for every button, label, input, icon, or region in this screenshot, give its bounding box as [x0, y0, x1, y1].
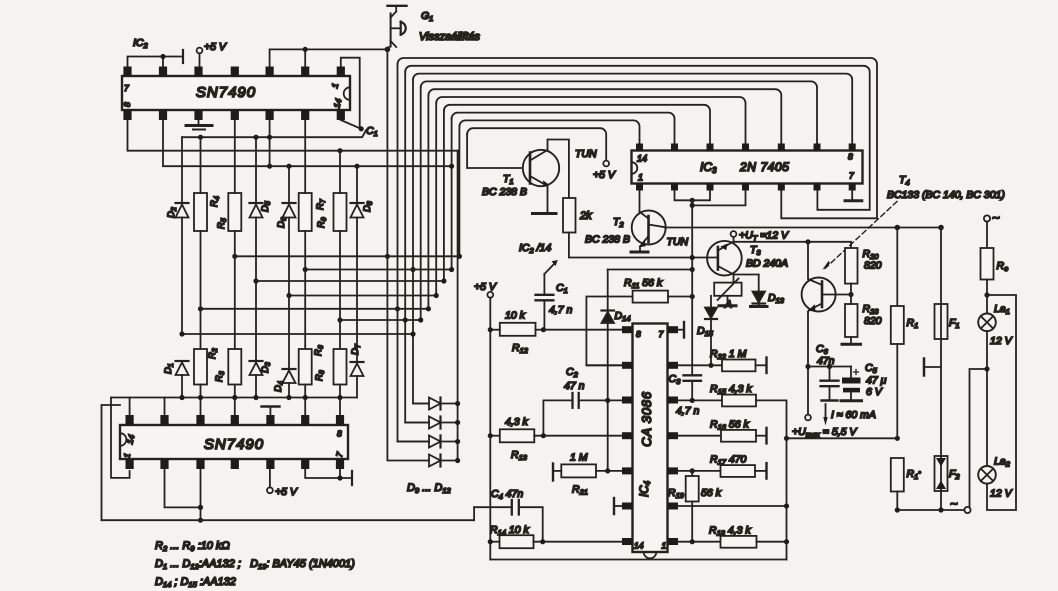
wire row g (y=320)	[340, 319, 421, 321]
IC IC4 CA3086 box	[633, 324, 668, 553]
wire bus line 4 to IC3 pin top	[421, 81, 817, 143]
junction R14 left	[488, 539, 493, 544]
relay contact in lamp line	[924, 359, 941, 376]
junction pin5 line166	[267, 164, 272, 169]
wire bus line 1 left drop to diode D11 row	[398, 64, 430, 442]
ground below pin3 (top IC)	[186, 120, 212, 130]
resistor R20	[845, 248, 858, 284]
junction row d right	[434, 293, 439, 298]
wire bus line 7 to IC3 pin top	[444, 105, 710, 144]
svg-text:2k: 2k	[579, 210, 592, 222]
junction T4 emitter node	[805, 364, 810, 369]
svg-text:8: 8	[122, 102, 132, 107]
svg-text:7: 7	[659, 329, 664, 339]
junction row a right	[457, 254, 462, 259]
svg-text:C4 47n: C4 47n	[491, 488, 523, 501]
junction pin3b bottom line	[198, 518, 203, 523]
wire bus line 2 to IC3 pin6 bottom	[405, 66, 870, 210]
svg-text:R15 4,3 k: R15 4,3 k	[710, 383, 752, 396]
pin stubs IC4	[622, 326, 678, 545]
junction pin4 tap	[690, 203, 695, 208]
svg-text:R22 1 M: R22 1 M	[710, 348, 747, 361]
junction pin6 reset line	[303, 47, 308, 52]
wire IC3 pins2,3 bracket	[675, 191, 711, 201]
capacitor C2	[543, 393, 621, 436]
junction row g left	[337, 317, 342, 322]
junction Umax line right	[895, 436, 900, 441]
transistor T1 BC238B	[523, 150, 559, 186]
svg-text:CA 3086: CA 3086	[639, 391, 654, 447]
svg-text:R18 4,3 k: R18 4,3 k	[709, 525, 751, 538]
junction d5col line137	[253, 135, 258, 140]
junction loop right	[690, 267, 695, 272]
resistor R12	[490, 323, 543, 336]
capacitor C4	[474, 500, 543, 542]
fuse F2	[935, 367, 948, 510]
wire supply rail from T2 collector	[665, 227, 941, 229]
resistor R23	[845, 295, 858, 344]
resistor R21	[553, 464, 622, 481]
wire IC3 pin4 left to tap column	[692, 191, 745, 206]
lamp La1	[978, 314, 996, 332]
terminal bar above pin5 (lower IC)	[262, 407, 280, 416]
resistor R22	[678, 358, 767, 374]
svg-text:7: 7	[124, 83, 129, 93]
wire G1 column down to diode D12 row	[387, 49, 429, 460]
wire row b (y=269.5)	[305, 269, 451, 271]
wire Umax line to R1 column	[787, 437, 898, 439]
wire bottom rail to right column	[490, 559, 786, 561]
pin stubs SN7490 lower IC	[126, 415, 345, 469]
junction row e left	[198, 306, 203, 311]
svg-text:8: 8	[636, 329, 641, 339]
diode D10	[405, 417, 457, 429]
junction row c left	[253, 278, 258, 283]
junction lamps midpoint	[984, 366, 989, 371]
wire right bracket around lamps	[987, 295, 1016, 510]
terminal AC bottom	[964, 507, 970, 513]
wire bus line 3 to IC3 pin top	[413, 74, 852, 144]
transistor T4 BC133	[802, 242, 851, 367]
junction IC2 bracket	[160, 54, 165, 59]
svg-text:12 V: 12 V	[990, 488, 1013, 500]
diode D13	[753, 275, 766, 306]
notch IC4 bottom	[644, 552, 657, 558]
terminal bar IC4 pin7 right	[678, 322, 684, 338]
junction matrix dots on bus columns	[385, 254, 416, 323]
wire pin5 drop through to line166	[269, 120, 271, 166]
ground T2 emitter	[631, 251, 648, 254]
resistor R17	[678, 463, 767, 479]
junction row h right	[410, 331, 415, 336]
svg-text:+Umax = 5,5 V: +Umax = 5,5 V	[792, 426, 857, 439]
svg-text:10 k: 10 k	[505, 310, 526, 322]
terminal +5V (top)	[197, 48, 203, 67]
terminal +5V (middle)	[487, 292, 493, 560]
resistor R15	[678, 395, 787, 560]
junction R1prime bottom	[895, 507, 900, 512]
svg-text:TUN: TUN	[667, 236, 689, 248]
svg-text:47 μ: 47 μ	[866, 375, 887, 387]
svg-text:R14 10 k: R14 10 k	[490, 524, 529, 537]
ground relay A	[719, 304, 736, 307]
wire pin14 diagonal to node C1	[341, 120, 362, 129]
terminal AC top	[984, 215, 990, 221]
junction C3 row400 right	[690, 398, 695, 403]
svg-text:BD 240A: BD 240A	[746, 258, 788, 270]
wire T1 emitter to ground	[547, 186, 549, 213]
junction D12 common	[455, 458, 460, 463]
wire bus line 9 to IC3 pin top	[459, 120, 639, 143]
diode D3	[250, 361, 263, 398]
transistor T3 BD240A	[707, 241, 742, 276]
junction d6col line166	[286, 164, 291, 169]
wire row e (y=308.8)	[201, 308, 429, 310]
wire bus line 2 left drop to diode D10 row	[405, 72, 429, 423]
junction row h left	[179, 331, 184, 336]
capacitor C3	[684, 270, 702, 401]
IC U-IC1 SN7490 box (lower)	[120, 425, 348, 459]
svg-text:4,7 n: 4,7 n	[549, 304, 573, 316]
wire bottom AC line	[897, 509, 964, 511]
junction r9col line150	[337, 148, 342, 153]
junction G1 reset line	[385, 47, 391, 53]
wire pin2 top stub up	[164, 398, 166, 415]
svg-text:+5 V: +5 V	[593, 169, 616, 181]
pin stubs IC3	[636, 144, 856, 191]
resistor R7	[299, 120, 312, 349]
resistor Re	[981, 222, 994, 314]
wire IC4 row506 right	[678, 505, 787, 507]
capacitor C5 electrolytic	[841, 367, 862, 401]
transistor T2 BC238B	[632, 211, 666, 252]
svg-text:D1 ... D12:AA132 ; D13: BAY4: D1 ... D12:AA132 ; D13: BAY45 (1N4001)	[155, 558, 355, 571]
resistor R16	[678, 428, 767, 444]
fuse F1	[935, 228, 948, 368]
junction D9 common	[455, 401, 460, 406]
svg-text:820: 820	[864, 315, 882, 327]
wire IC3 pin1 to T2	[639, 191, 641, 212]
IC IC3 2N7405 box	[632, 151, 863, 184]
resistor R13	[490, 429, 621, 442]
junction D10 common	[455, 420, 460, 425]
svg-text:Visszaállítás: Visszaállítás	[419, 31, 480, 43]
wire outer left vertical to bottom line	[102, 405, 121, 520]
junction R11 right on C3 column	[690, 294, 695, 299]
junction R12 left	[488, 327, 493, 332]
diode D15	[705, 296, 717, 366]
resistor 2k	[563, 198, 576, 233]
terminal +UT=12V	[731, 231, 737, 242]
junction r4col line137	[198, 135, 203, 140]
diode D2	[176, 137, 189, 334]
wire bottom long line y=520.2	[102, 519, 475, 521]
resistor R6	[299, 349, 312, 415]
lamp La2	[978, 466, 996, 484]
junction rail R1	[895, 225, 901, 231]
junction T3 base / C3 column	[690, 255, 695, 260]
svg-text:A: A	[724, 299, 732, 311]
wire bus line 10 to +5V terminal near IC3	[467, 128, 606, 160]
wire pins6b,7b bracket lower IC	[305, 469, 352, 485]
wire under-IC line y=137 to node C1	[182, 130, 366, 137]
junction D14 column R21 row	[605, 468, 610, 473]
svg-text:12 V: 12 V	[990, 335, 1013, 347]
wire bus line 1 (outer) to IC3 pin5 bottom	[398, 58, 878, 218]
junction row d left	[286, 293, 291, 298]
IC U-IC2 SN7490 box (top)	[122, 76, 350, 110]
current arrow I=60mA	[823, 404, 827, 426]
svg-text:BC133 (BC 140, BC 301): BC133 (BC 140, BC 301)	[887, 189, 1005, 201]
wire pin1 top stub up	[129, 398, 131, 415]
wire bus line 3 left drop to diode D9 row	[413, 80, 429, 404]
svg-text:+5 V: +5 V	[204, 41, 227, 53]
resistor R11	[586, 291, 692, 366]
pin stubs SN7490 top IC	[123, 67, 345, 121]
resistor R5	[228, 120, 241, 349]
resistor R4	[194, 137, 207, 349]
junctions on line397	[179, 395, 342, 400]
svg-text:7: 7	[849, 171, 854, 181]
junction F2 bottom	[938, 507, 943, 512]
svg-text:6 V: 6 V	[866, 386, 883, 398]
wire bus line 8 left drop to row b	[451, 119, 453, 270]
svg-text:14: 14	[637, 154, 647, 164]
svg-text:I ≈ 60 mA: I ≈ 60 mA	[831, 409, 876, 421]
wire T4 emitter node line	[808, 366, 851, 368]
resistor R9	[334, 151, 347, 349]
junction d8col line166	[354, 164, 359, 169]
diode D12	[429, 455, 458, 467]
ground IC3 pin7	[845, 191, 862, 201]
svg-text:820: 820	[864, 260, 882, 272]
junction row g right	[418, 317, 423, 322]
svg-text:1 M: 1 M	[570, 452, 588, 464]
svg-text:1: 1	[662, 541, 667, 551]
wire bus line 5 to IC3 pin top	[428, 89, 781, 143]
wire row c (y=281)	[256, 280, 444, 282]
wire pins 5,6 to reset line	[270, 49, 388, 66]
junction row b right	[449, 267, 454, 272]
svg-text:2N 7405: 2N 7405	[739, 160, 790, 174]
junction R19 bottom row	[690, 539, 695, 544]
wire bus line 8 to IC3 pin top	[452, 113, 675, 144]
terminal +Umax	[805, 367, 811, 421]
ground R23	[842, 343, 861, 346]
svg-text:~: ~	[992, 210, 1000, 225]
svg-text:BC 238 B: BC 238 B	[482, 186, 527, 198]
junction pin5 line137	[267, 135, 272, 140]
capacitor C6	[821, 367, 839, 401]
arrow to IC2 pin14	[544, 260, 557, 294]
junction row506 right column	[784, 503, 789, 508]
svg-text:+UT =12 V: +UT =12 V	[739, 230, 789, 243]
junction R18 right column	[784, 539, 789, 544]
wire T3 collector node	[734, 275, 759, 283]
resistor R18	[678, 536, 787, 548]
wire 12V line B to R20	[734, 242, 852, 248]
wire under-IC line y=166.2 from pin2	[163, 120, 452, 166]
diode D5	[250, 137, 263, 361]
svg-text:SN7490: SN7490	[196, 84, 256, 101]
diode D4	[283, 369, 296, 398]
resistor R8	[334, 349, 347, 415]
svg-text:56 k: 56 k	[701, 487, 722, 499]
diode D7	[351, 362, 364, 398]
svg-text:8: 8	[848, 152, 853, 162]
terminal +5V near IC3	[603, 161, 609, 167]
wire 2k bottom to T3 base	[569, 233, 718, 258]
wire pins2b,3b lower IC to bottom lines	[165, 469, 201, 520]
svg-text:R16 56 k: R16 56 k	[710, 419, 749, 432]
wire bus line 9 left drop to row a	[458, 126, 460, 256]
junction pin3b	[198, 505, 203, 510]
svg-text:4,3 k: 4,3 k	[505, 416, 529, 428]
diode D11	[398, 436, 458, 448]
junction D15 row R22	[708, 363, 713, 368]
ground D13	[751, 305, 768, 308]
diode D14	[602, 270, 615, 471]
resistor R1prime	[891, 458, 904, 510]
wire AC terminal up to lamp junction	[970, 369, 988, 507]
terminal bar IC4 row506 left	[614, 498, 622, 514]
junction row a left	[232, 254, 237, 259]
wire IC4 row365 left	[586, 364, 621, 366]
junction T4 base R20 R23	[848, 292, 853, 297]
junction D14 bottom row400	[605, 398, 610, 403]
junction R14 right C4	[540, 539, 545, 544]
wire R20 to node	[850, 284, 852, 295]
wire bus line 6 to IC3 pin top	[436, 97, 745, 144]
svg-text:4,7 n: 4,7 n	[676, 405, 700, 417]
wire bus line 6 left drop to row d	[435, 103, 437, 296]
resistor R3	[228, 349, 241, 415]
capacitor C1	[536, 295, 554, 330]
resistor R2	[194, 349, 207, 415]
junction pin7b bracket	[337, 475, 342, 480]
wire D9..D12 common column	[457, 151, 459, 461]
svg-text:R17 470: R17 470	[710, 454, 747, 467]
junction C6 tap	[827, 364, 832, 369]
svg-text:BC 238 B: BC 238 B	[585, 234, 630, 246]
junction C1 R12 node	[541, 327, 546, 332]
svg-text:SN7490: SN7490	[204, 436, 264, 453]
terminal +5V below lower IC	[267, 469, 273, 493]
wire row a (y=256.3)	[235, 255, 460, 257]
relay coil A	[714, 279, 741, 305]
svg-text:47 n: 47 n	[564, 380, 585, 392]
junction R19 top	[690, 468, 695, 473]
svg-text:R11 56 k: R11 56 k	[624, 277, 663, 290]
resistor R14	[490, 535, 621, 548]
wire pin7 bracket to node C1	[341, 58, 360, 128]
wire La1 to La2	[986, 331, 988, 466]
wire bus line 7 left drop to row c	[443, 111, 445, 281]
ground T1 emitter	[533, 212, 557, 215]
junction R13 left	[488, 433, 493, 438]
pushbutton G1	[387, 6, 406, 50]
diode D9	[413, 398, 458, 410]
junction row e right	[426, 306, 431, 311]
wire bus line 10 left drop to T1 base	[467, 134, 522, 168]
wire left bracket pin1 lower IC	[111, 398, 130, 478]
wire under-IC line y=150.7 from pin1 to D9..D12 column	[128, 120, 458, 151]
svg-text:+5 V: +5 V	[474, 281, 497, 293]
svg-text:IC2 /14: IC2 /14	[519, 242, 551, 255]
node C1	[359, 126, 364, 131]
wire row h (y=334)	[182, 333, 413, 335]
wire line above lower IC y=397.5	[111, 397, 357, 399]
svg-text:TUN: TUN	[575, 148, 597, 160]
diode D1	[176, 361, 189, 398]
junction D11 common	[455, 439, 460, 444]
wire row d (y=295.5)	[289, 295, 436, 297]
resistor R19	[686, 471, 699, 542]
wire bracket tap down to T3 base line	[691, 200, 693, 269]
wire bus line 4 left drop to row g	[420, 87, 422, 320]
junction row b left	[303, 267, 308, 272]
junction line166 bus8	[449, 164, 454, 169]
junction R13 right C2	[541, 433, 546, 438]
wire T3 base loop top	[608, 269, 693, 271]
dashed pointer to T4	[822, 202, 897, 272]
junction row c right	[441, 278, 446, 283]
svg-text:~: ~	[950, 496, 958, 511]
svg-text:8: 8	[337, 429, 342, 439]
svg-text:1: 1	[638, 173, 643, 183]
junction rail F1 corner	[938, 225, 944, 231]
wire T1 collector to 2k resistor	[548, 140, 569, 199]
IC2 connection bracket with terminal bar	[128, 50, 184, 67]
svg-text:+5 V: +5 V	[275, 486, 298, 498]
resistor R1	[891, 228, 904, 439]
wire node to IC4 pin8	[543, 329, 621, 331]
junction bracket center tap	[690, 198, 695, 203]
diode D8	[351, 166, 364, 362]
diode D6	[283, 166, 296, 369]
wire bus line 5 left drop to row e	[427, 95, 429, 309]
junction Umax line left	[784, 436, 789, 441]
junction T4 collector on line B	[805, 239, 810, 244]
svg-text:47n: 47n	[817, 355, 835, 367]
svg-text:14: 14	[634, 541, 644, 551]
junction Re lamp bracket	[984, 292, 989, 297]
